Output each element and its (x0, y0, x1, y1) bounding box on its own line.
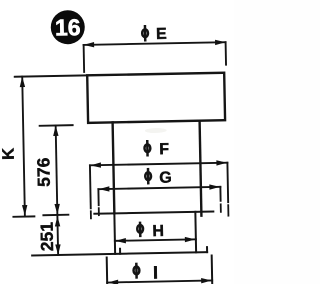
svg-text:576: 576 (33, 157, 54, 187)
svg-text:251: 251 (37, 222, 58, 252)
svg-text:E: E (156, 26, 167, 43)
svg-text:K: K (0, 148, 18, 160)
svg-text:F: F (159, 141, 169, 158)
svg-text:I: I (153, 263, 158, 283)
svg-text:16: 16 (55, 14, 81, 40)
svg-text:G: G (159, 170, 172, 187)
svg-text:H: H (152, 223, 164, 240)
